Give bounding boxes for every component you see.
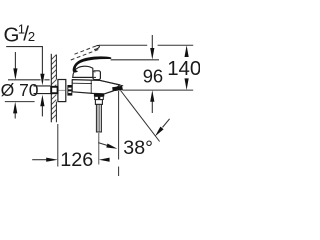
inlet pipe	[34, 86, 51, 94]
lever handle (solid)	[73, 57, 111, 72]
dim 96 upper arrow	[151, 35, 153, 49]
hose hex nut facets	[95, 96, 104, 99]
dim 140 top arrow	[185, 45, 189, 57]
hose collar (dark)	[94, 94, 104, 97]
cartridge dome	[73, 66, 93, 77]
dome base line	[73, 76, 96, 78]
lever raised position (dashed)	[75, 46, 97, 54]
body inner line	[73, 82, 92, 84]
hose centerline	[98, 133, 100, 165]
svg-text:140: 140	[167, 58, 200, 80]
leader arrow up to pipe bottom	[41, 105, 43, 116]
svg-text:38°: 38°	[123, 137, 153, 159]
dim 96 lower arrow	[151, 101, 153, 113]
angle vertical reference line	[118, 91, 120, 176]
svg-text:126: 126	[60, 149, 93, 171]
svg-text:2: 2	[28, 29, 35, 44]
dim 140 bottom arrow	[185, 78, 189, 90]
label G 1/2	[4, 21, 36, 46]
extension line C (spout outlet)	[122, 89, 193, 91]
dim 126 wall extension line	[57, 124, 59, 167]
wall hatching	[51, 55, 56, 120]
dim Ø70 lower extension line	[5, 101, 35, 103]
body/spout joint	[90, 80, 92, 93]
svg-text:96: 96	[143, 65, 163, 86]
wall back line	[50, 54, 52, 123]
dim Ø70 bottom arrow	[14, 113, 16, 119]
leader bracket for G 1/2	[6, 47, 42, 75]
angle right arrow	[163, 119, 170, 128]
union nut	[67, 85, 72, 96]
shower hose	[96, 104, 101, 132]
hose nut body	[95, 100, 102, 105]
diverter knob	[93, 71, 100, 80]
rosette axis hidden line	[59, 89, 66, 91]
dim Ø70 upper extension line	[8, 79, 50, 81]
dim Ø70 top arrow	[14, 52, 16, 69]
angle left arrow	[98, 143, 107, 146]
faucet body	[72, 80, 120, 94]
extension line B (lever top)	[111, 59, 159, 61]
spout top line	[100, 80, 123, 86]
dashed lever tip	[94, 45, 99, 49]
label Ø 70	[1, 80, 39, 100]
leader arrow down to pipe top	[40, 74, 44, 86]
escutcheon rosette	[58, 80, 66, 102]
svg-text:Ø 70: Ø 70	[1, 80, 39, 100]
angle sloped line (38 deg)	[121, 91, 160, 142]
dim 126 left arrow	[32, 159, 47, 161]
spout outlet tip (solid)	[112, 86, 122, 91]
extension line A (raised lever top)	[99, 44, 193, 46]
wall face line	[55, 55, 57, 123]
dim 126 right arrow	[99, 158, 110, 162]
pipe stub through wall (dark square)	[51, 87, 57, 93]
